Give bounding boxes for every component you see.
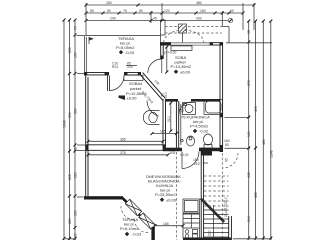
svg-text:±0,00: ±0,00 bbox=[127, 96, 138, 101]
stair upper flight dashed treads bbox=[204, 176, 229, 206]
svg-text:160: 160 bbox=[74, 210, 78, 216]
svg-text:160: 160 bbox=[247, 131, 251, 137]
svg-text:-0,03: -0,03 bbox=[132, 232, 142, 237]
bidet bbox=[181, 136, 195, 146]
stair left wall bbox=[201, 151, 203, 240]
radiator under window bbox=[171, 46, 192, 51]
bay window 1 bbox=[125, 199, 142, 216]
svg-text:390: 390 bbox=[68, 112, 72, 118]
svg-text:25: 25 bbox=[74, 147, 78, 151]
svg-text:210: 210 bbox=[167, 116, 171, 122]
terrace slab edge top bbox=[85, 35, 161, 37]
KUPAONICA label bbox=[181, 115, 210, 134]
svg-text:45: 45 bbox=[153, 17, 157, 21]
svg-text:180: 180 bbox=[200, 9, 206, 13]
top dimension row 2 bbox=[85, 9, 245, 14]
stair lower flight treads bbox=[204, 210, 229, 237]
hatched shaft above window bbox=[179, 24, 187, 43]
interior dim 365 bbox=[87, 137, 165, 142]
svg-text:±0,00: ±0,00 bbox=[180, 153, 189, 157]
svg-text:R01: R01 bbox=[112, 65, 118, 69]
kitchen dim 165 bbox=[154, 222, 185, 227]
bay window 2 bbox=[139, 213, 156, 230]
stair stringer bbox=[213, 205, 215, 237]
left dimension column 2 bbox=[68, 19, 72, 240]
SOBA4 label bbox=[119, 81, 148, 101]
svg-text:430: 430 bbox=[196, 17, 202, 21]
DNEVNI BORAVAK label bbox=[146, 174, 184, 202]
svg-text:165: 165 bbox=[163, 222, 169, 226]
svg-text:80: 80 bbox=[225, 143, 229, 147]
svg-text:210: 210 bbox=[194, 162, 200, 166]
extension lines left bbox=[65, 36, 85, 239]
svg-text:480: 480 bbox=[196, 1, 202, 5]
SOBA4 east wall bbox=[163, 99, 166, 146]
SOBA interior vertical dim bbox=[166, 47, 168, 72]
dashed roof overhang lines bbox=[165, 26, 222, 28]
right dimension column 4 bbox=[269, 20, 273, 240]
svg-text:190: 190 bbox=[74, 52, 78, 58]
bottom wall bbox=[183, 238, 232, 240]
washing machine bbox=[183, 103, 196, 115]
svg-text:85: 85 bbox=[90, 9, 94, 13]
WC bbox=[204, 134, 213, 149]
left dimension column 1 bbox=[63, 19, 67, 240]
svg-text:210: 210 bbox=[208, 230, 212, 236]
svg-text:1248: 1248 bbox=[63, 120, 67, 128]
SOBA (top) label bbox=[171, 55, 192, 74]
svg-text:-0,03: -0,03 bbox=[125, 50, 135, 55]
entrance door dashed arc bbox=[223, 153, 238, 168]
kitchen counter bbox=[183, 199, 200, 238]
svg-text:375: 375 bbox=[120, 151, 126, 155]
right dimension column 3 bbox=[262, 20, 266, 240]
mid wall between rooms bbox=[85, 144, 166, 150]
svg-text:-0,02: -0,02 bbox=[199, 129, 209, 134]
wall below diagonal bbox=[151, 227, 154, 240]
svg-text:P=6,10m2: P=6,10m2 bbox=[120, 226, 139, 231]
bathroom south wall bbox=[163, 148, 223, 156]
hall vertical dim 210 bbox=[167, 102, 172, 133]
terrace south wall bbox=[84, 72, 143, 91]
diagonal bay wall bbox=[122, 198, 153, 229]
door arc into room bbox=[147, 101, 159, 117]
svg-text:p=+0,00: p=+0,00 bbox=[164, 51, 177, 55]
svg-text:215: 215 bbox=[247, 216, 251, 222]
bathroom door arc bbox=[179, 102, 192, 115]
stair dashed floor-above line bbox=[221, 153, 223, 240]
living room door arc bbox=[182, 152, 199, 169]
bathroom north wall bbox=[166, 99, 221, 102]
top extension lines bbox=[85, 3, 87, 35]
svg-text:95: 95 bbox=[225, 158, 229, 162]
svg-text:105: 105 bbox=[160, 130, 166, 134]
svg-text:21x17,2/28,0: 21x17,2/28,0 bbox=[224, 197, 228, 217]
right dimension column 2 bbox=[254, 20, 258, 240]
svg-text:60: 60 bbox=[230, 9, 234, 13]
washbasin bbox=[143, 111, 159, 125]
TERASA (bottom) label bbox=[120, 217, 142, 237]
bathtub bbox=[204, 100, 223, 115]
svg-text:1248: 1248 bbox=[269, 150, 273, 158]
svg-text:483: 483 bbox=[262, 139, 266, 145]
svg-text:±0,00: ±0,00 bbox=[180, 69, 191, 74]
dashed section line bbox=[176, 152, 178, 240]
svg-text:60: 60 bbox=[74, 233, 78, 237]
stair break line bbox=[201, 199, 225, 223]
SOBA terrace door arc bbox=[148, 59, 162, 73]
svg-text:P=25,50m2: P=25,50m2 bbox=[155, 192, 176, 197]
stair right wall bbox=[229, 216, 232, 240]
svg-text:455: 455 bbox=[254, 192, 258, 198]
dashed window swing arcs bbox=[164, 30, 182, 42]
chimney pillar top-left bbox=[161, 20, 166, 35]
svg-text:120: 120 bbox=[164, 9, 170, 13]
svg-text:240: 240 bbox=[110, 17, 116, 21]
svg-text:105: 105 bbox=[170, 151, 176, 155]
SOBA north wall bbox=[160, 42, 223, 46]
svg-text:435: 435 bbox=[247, 172, 251, 178]
building left wall bbox=[86, 73, 88, 197]
terrace slab edge left bbox=[83, 36, 85, 74]
terrace right edge bbox=[160, 36, 162, 43]
top dimension row 1 bbox=[85, 1, 256, 6]
svg-text:80: 80 bbox=[107, 9, 111, 13]
left dimension column 3 bbox=[74, 19, 78, 240]
SW wall of living room bbox=[84, 196, 123, 199]
svg-text:360: 360 bbox=[74, 108, 78, 114]
bathroom interior dim 212 bbox=[181, 104, 185, 145]
extension lines right bbox=[225, 43, 273, 239]
bay dashed swing arcs bbox=[121, 206, 134, 220]
svg-text:403: 403 bbox=[254, 106, 258, 112]
TERASA (top) label bbox=[116, 36, 135, 55]
east wall bbox=[220, 42, 223, 152]
svg-text:365: 365 bbox=[120, 137, 126, 141]
interior dim 105 bbox=[151, 130, 179, 135]
svg-text:210: 210 bbox=[164, 92, 168, 98]
svg-text:75: 75 bbox=[123, 9, 127, 13]
svg-text:75: 75 bbox=[74, 26, 78, 30]
svg-text:P=10,45m2: P=10,45m2 bbox=[171, 64, 192, 69]
flag symbol bbox=[89, 37, 94, 44]
SOBA west wall upper bbox=[160, 43, 163, 59]
svg-text:80: 80 bbox=[139, 9, 143, 13]
svg-text:225: 225 bbox=[74, 172, 78, 178]
bathroom west wall bbox=[176, 101, 178, 148]
right dimension column 1 bbox=[247, 20, 251, 240]
svg-text:±0,00: ±0,00 bbox=[166, 197, 177, 202]
top dimension row 3 bbox=[85, 17, 233, 23]
svg-text:280: 280 bbox=[106, 1, 112, 5]
interior dim 375 bbox=[87, 151, 176, 156]
svg-text:225: 225 bbox=[68, 174, 72, 180]
diagonal hall wall bbox=[140, 73, 165, 101]
svg-text:275: 275 bbox=[247, 80, 251, 86]
svg-text:220: 220 bbox=[68, 218, 72, 224]
svg-text:95: 95 bbox=[247, 30, 251, 34]
svg-text:265: 265 bbox=[68, 47, 72, 53]
